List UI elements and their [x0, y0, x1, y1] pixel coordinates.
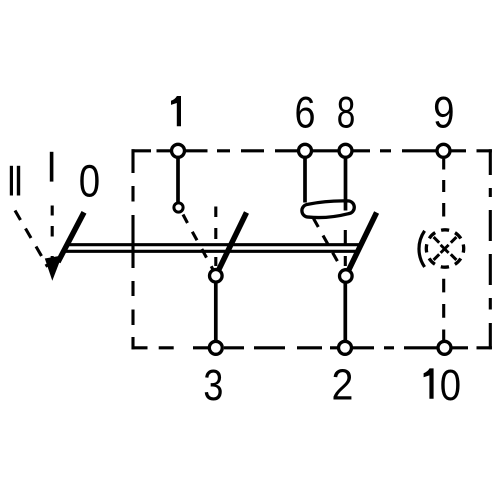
actuator arrow shaft (left, position 0) [58, 212, 84, 262]
svg-text:3: 3 [203, 362, 223, 410]
dashed alternate position line pole 2 (vertical) [344, 230, 347, 266]
terminal circle 6 [299, 144, 312, 157]
svg-text:0: 0 [440, 360, 461, 409]
moving contact circle pole 1 [174, 203, 183, 212]
lever pole 2 [346, 213, 377, 277]
wire stem pivot 3 to terminal 3 [214, 276, 218, 340]
terminal number 10: digit 1 [424, 368, 434, 398]
dashed alternate position line pole 3 (diagonal from contact 1) [183, 215, 214, 273]
pivot circle pole 3 [210, 270, 223, 283]
svg-text:0: 0 [79, 155, 100, 206]
illumination lamp: reflector arc [419, 231, 425, 267]
switch housing dashed box: left edge [131, 149, 134, 349]
dashed wire lamp to terminal 10 [442, 279, 445, 340]
dashed wire terminal 9 to lamp [442, 159, 445, 217]
terminal circle 1 [172, 144, 185, 157]
switch housing dashed box: top edge [132, 149, 492, 152]
label I (position marker) [50, 152, 54, 182]
dashed alternate position line pole 3 (vertical) [214, 207, 217, 267]
svg-text:2: 2 [332, 361, 354, 409]
wire stem from terminal 8 [344, 159, 348, 211]
bridge contact (6-8) [302, 201, 354, 218]
svg-text:8: 8 [337, 88, 356, 138]
svg-text:9: 9 [433, 88, 454, 137]
wire stem from terminal 1 [176, 159, 180, 203]
terminal number 1 [171, 96, 181, 126]
terminal circle 3 [209, 341, 222, 354]
dashed lever position I line (left) [51, 206, 54, 267]
terminal circle 8 [339, 144, 352, 157]
switch housing dashed box: bottom edge [132, 346, 492, 349]
illumination lamp: centre cross [441, 245, 449, 253]
wire stem pivot 2 to terminal 2 [343, 276, 347, 340]
actuator bar (double line) [66, 245, 362, 252]
terminal circle 10 [438, 341, 451, 354]
wire stem from terminal 6 [303, 159, 307, 203]
illumination lamp: diagonal spokes [434, 237, 457, 260]
lever pole 3 [216, 213, 247, 276]
switch housing dashed box: right edge [489, 149, 492, 349]
dashed lever position II line (left) [15, 211, 48, 267]
illumination lamp: dashed rim [426, 230, 463, 267]
pivot circle pole 2 [340, 270, 353, 283]
label II (position marker) [10, 166, 13, 196]
terminal circle 9 [437, 144, 450, 157]
actuator arrowhead [45, 256, 62, 281]
dashed alternate position line pole 2 (diagonal from bridge) [314, 219, 344, 273]
svg-text:6: 6 [295, 88, 316, 138]
terminal circle 2 [339, 341, 352, 354]
